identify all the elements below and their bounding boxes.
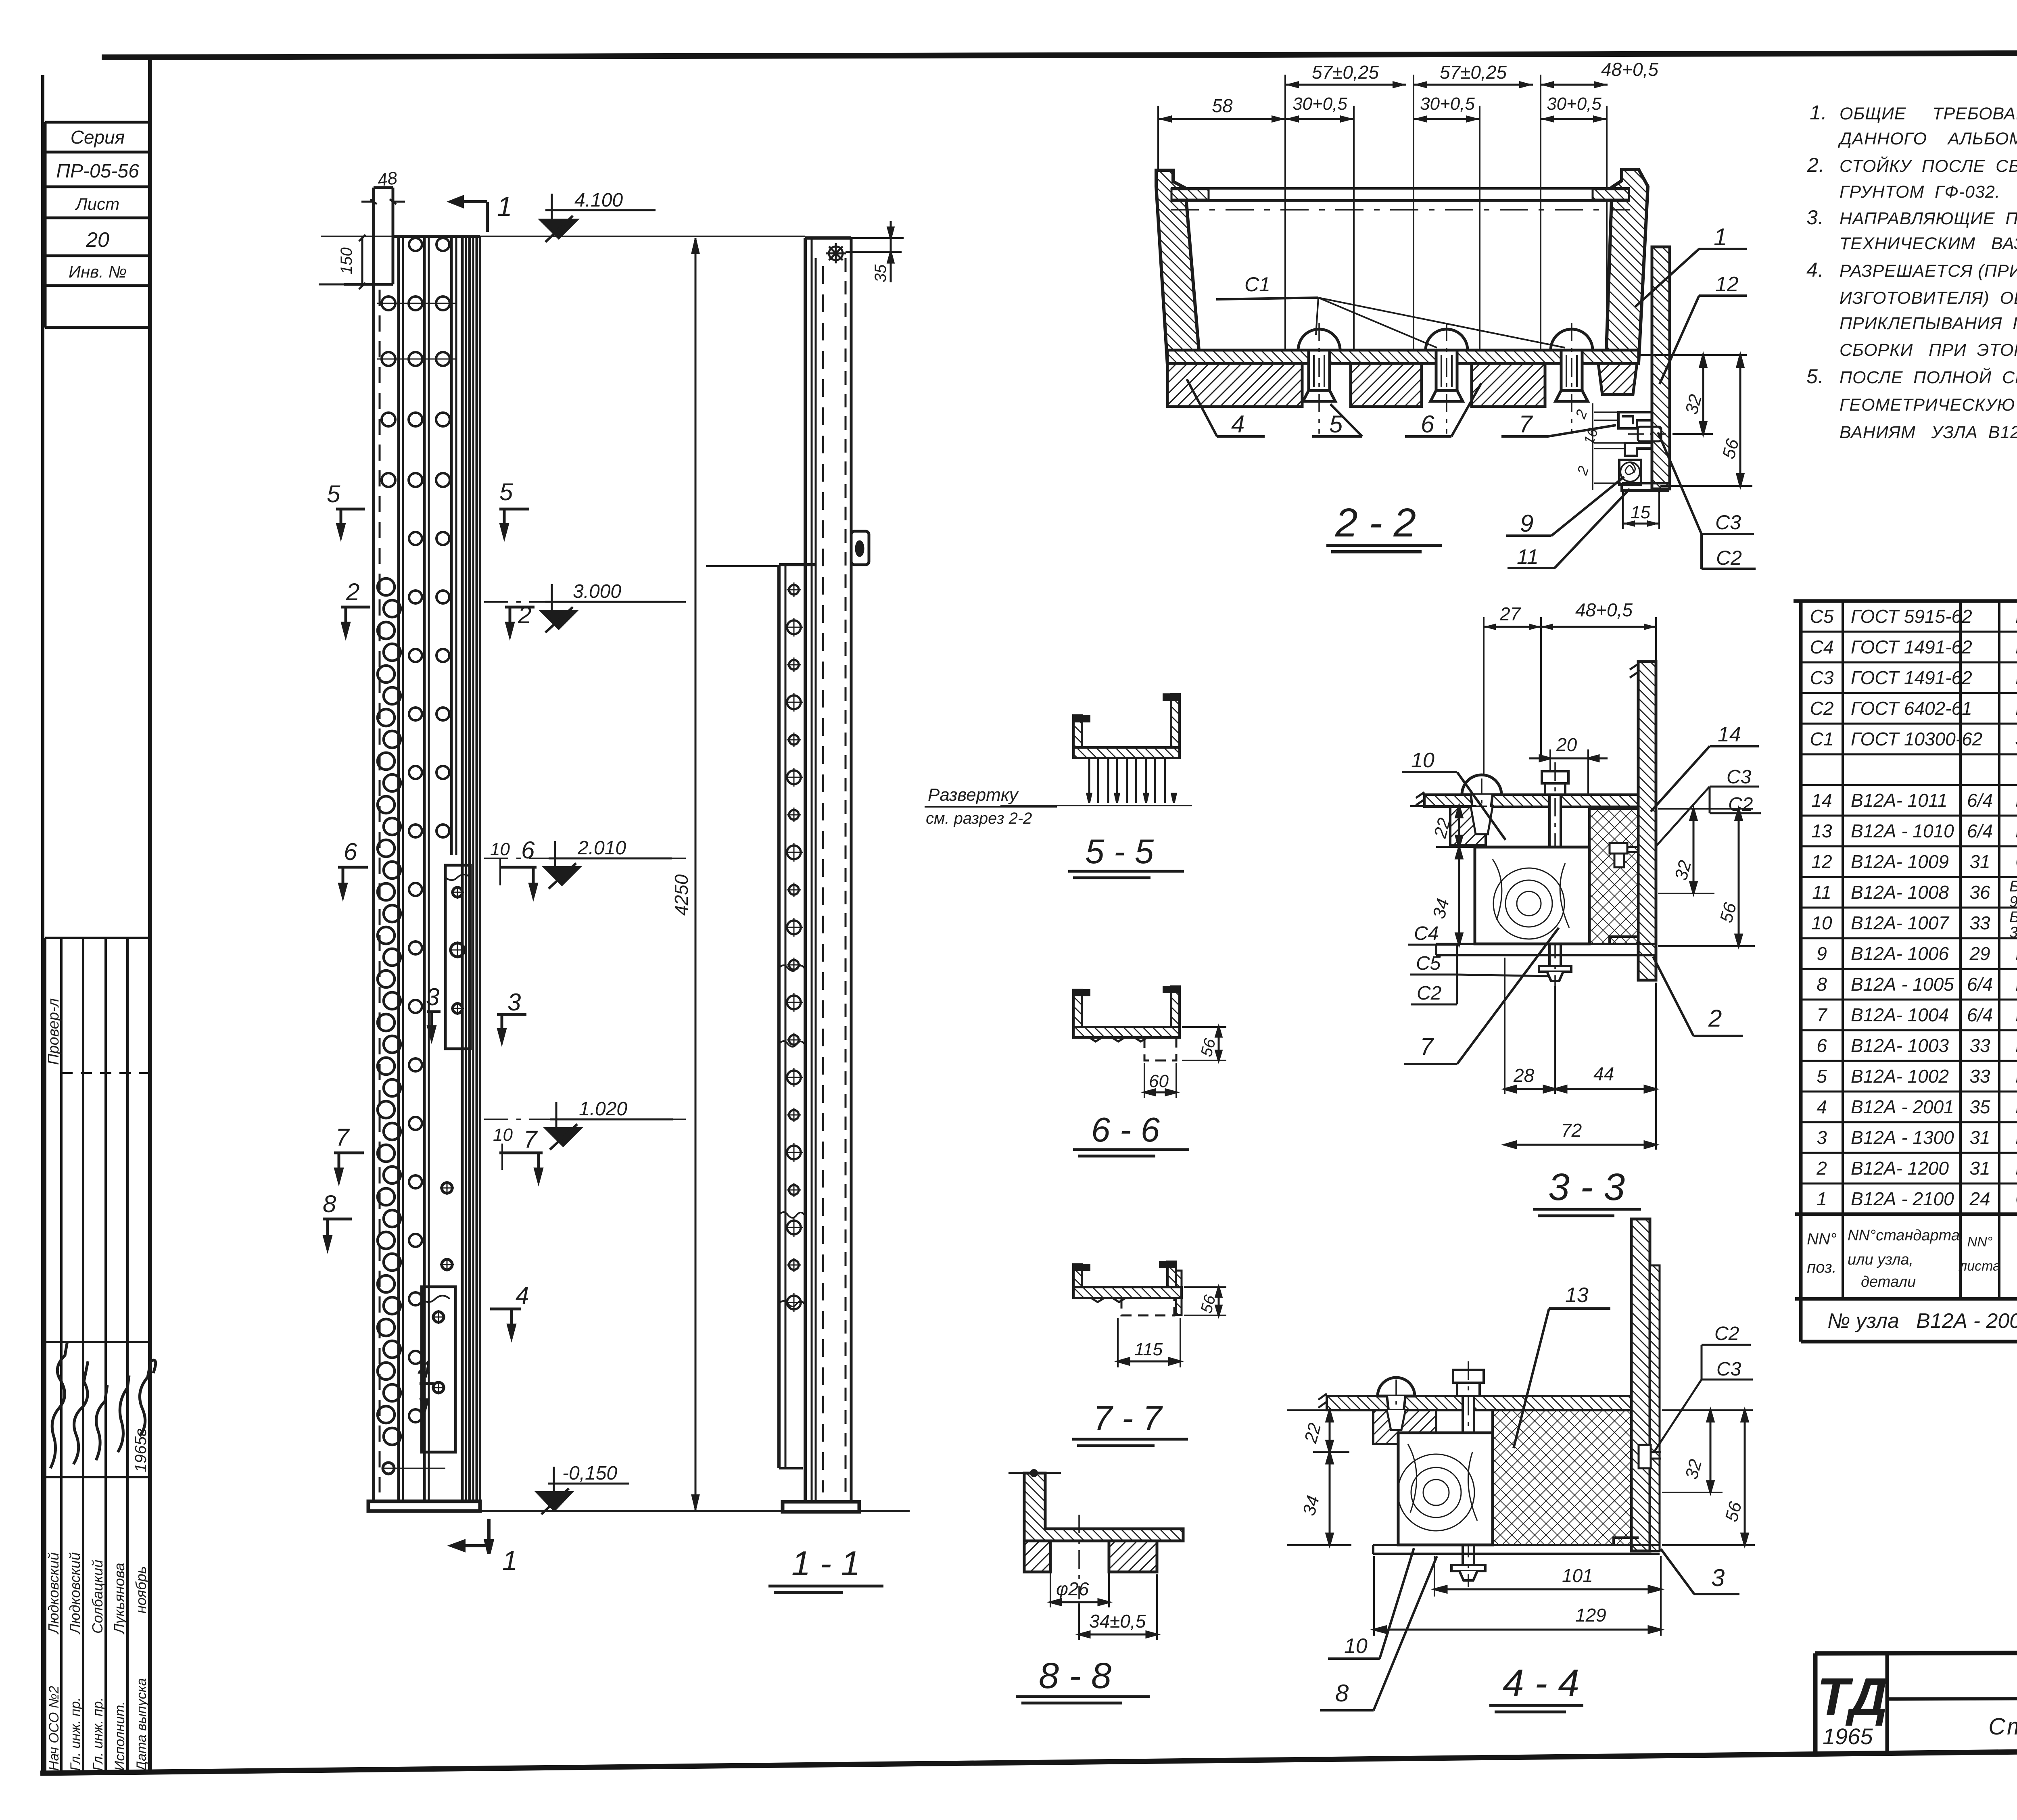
svg-text:2: 2 <box>1816 1158 1827 1179</box>
svg-text:5: 5 <box>327 480 340 507</box>
svg-text:57±0,25: 57±0,25 <box>1312 62 1379 83</box>
svg-text:4: 4 <box>516 1282 529 1309</box>
svg-text:С2: С2 <box>1714 1323 1739 1344</box>
svg-text:10: 10 <box>1811 912 1832 933</box>
svg-text:8: 8 <box>323 1190 336 1217</box>
svg-text:4.100: 4.100 <box>574 190 623 211</box>
svg-text:В12А - 2001: В12А - 2001 <box>1851 1096 1954 1117</box>
svg-text:10: 10 <box>493 1125 513 1145</box>
svg-text:6: 6 <box>344 838 357 865</box>
svg-text:35: 35 <box>1969 1096 1990 1117</box>
svg-text:СБОРКИ ПРИ ЭТОМ НЕСКОЛЬКО: СБОРКИ ПРИ ЭТОМ НЕСКОЛЬКО ИЗМЕНИТСЯ <box>1840 340 2017 360</box>
svg-text:Пластина - 2х12х980: Пластина - 2х12х980 <box>2015 943 2017 964</box>
7-7: pocket dashed <box>1121 1298 1174 1315</box>
svg-text:или узла,: или узла, <box>1848 1251 1913 1268</box>
svg-text:С5: С5 <box>1810 606 1834 627</box>
svg-text:6: 6 <box>521 837 535 864</box>
svg-text:31: 31 <box>1969 851 1990 872</box>
svg-text:13: 13 <box>1565 1284 1589 1307</box>
svg-text:φ26: φ26 <box>1056 1578 1089 1599</box>
7-7: dim 115 <box>1118 1318 1180 1367</box>
right elevation: channel start level line <box>706 565 779 567</box>
ground line <box>368 1510 910 1512</box>
svg-text:58: 58 <box>1212 95 1233 116</box>
svg-text:ИЗГОТОВИТЕЛЯ) ОБРАБОТКУ ПАЗО: ИЗГОТОВИТЕЛЯ) ОБРАБОТКУ ПАЗОВ 30 +0,5 mm… <box>1840 288 2017 308</box>
svg-text:34±0,5: 34±0,5 <box>1089 1611 1146 1632</box>
2-2: top cover strip (part 5) <box>1171 188 1630 200</box>
svg-text:14: 14 <box>1811 790 1832 811</box>
svg-text:НАПРАВЛЯЮЩИЕ ПАЗЫ ДЛЯ ПРЕДОХР: НАПРАВЛЯЮЩИЕ ПАЗЫ ДЛЯ ПРЕДОХРАНЕНИЯ ОТ К… <box>1840 209 2017 228</box>
svg-text:Шайба пружинная 6: Шайба пружинная 6 <box>2015 698 2017 719</box>
svg-text:6/4: 6/4 <box>1967 820 1993 841</box>
svg-text:С4: С4 <box>1810 637 1834 657</box>
svg-text:30+0,5: 30+0,5 <box>1420 94 1475 114</box>
svg-text:Винт М6х70: Винт М6х70 <box>2015 637 2017 657</box>
svg-text:Людковский: Людковский <box>45 1552 62 1634</box>
svg-text:3.: 3. <box>1806 206 1824 229</box>
6-6: dim 60 <box>1144 1063 1176 1098</box>
svg-text:60: 60 <box>1149 1071 1169 1091</box>
3-3: right angle bar <box>1638 662 1656 980</box>
svg-text:Серия: Серия <box>71 127 125 148</box>
level mark -0.150 <box>548 1467 629 1492</box>
svg-text:150: 150 <box>338 247 355 274</box>
section mark 3 left <box>427 1012 441 1039</box>
svg-text:13: 13 <box>1811 820 1832 841</box>
svg-text:С2: С2 <box>1728 794 1753 815</box>
svg-text:2.: 2. <box>1807 154 1825 176</box>
svg-text:NN°: NN° <box>1967 1234 1993 1250</box>
2-2: left flange (channel wall) <box>1156 170 1199 365</box>
svg-text:27: 27 <box>1499 603 1521 624</box>
title block grid <box>1815 1652 2017 1754</box>
svg-text:10: 10 <box>1344 1634 1368 1658</box>
4-4: hex bolt <box>1451 1370 1485 1580</box>
svg-text:12: 12 <box>1811 851 1832 872</box>
svg-text:см. разрез 2-2: см. разрез 2-2 <box>926 810 1032 827</box>
svg-text:1.020: 1.020 <box>579 1098 627 1120</box>
svg-text:листа: листа <box>1959 1259 2000 1274</box>
svg-text:С3: С3 <box>1810 667 1834 688</box>
svg-text:28: 28 <box>1513 1065 1535 1086</box>
2-2: right flange (channel wall) <box>1606 169 1648 363</box>
svg-text:2 - 2: 2 - 2 <box>1335 500 1416 545</box>
sidebar rotated labels <box>45 998 150 1772</box>
svg-text:Заклепка 8х26: Заклепка 8х26 <box>2015 728 2017 749</box>
svg-text:129: 129 <box>1575 1605 1606 1626</box>
svg-text:ГЕОМЕТРИЧЕСКУЮ ФОРМУ И СООТВЕ: ГЕОМЕТРИЧЕСКУЮ ФОРМУ И СООТВЕТСТВОВАТЬ Т… <box>1840 395 2017 415</box>
level line 1.020 <box>484 1119 686 1120</box>
3-3: bolt with nut <box>1539 771 1571 981</box>
svg-text:1965: 1965 <box>1823 1724 1873 1749</box>
svg-text:В12А - 1300: В12А - 1300 <box>1851 1127 1954 1148</box>
svg-text:ТЕХНИЧЕСКИМ ВАЗЕЛИНОМ.: ТЕХНИЧЕСКИМ ВАЗЕЛИНОМ. <box>1840 234 2017 253</box>
left elevation: lower bracket plate <box>382 1181 455 1474</box>
svg-text:44: 44 <box>1593 1063 1614 1084</box>
svg-text:Исполнит.: Исполнит. <box>112 1701 127 1771</box>
svg-text:С3: С3 <box>1715 511 1741 534</box>
4-4: wood block with grain <box>1398 1433 1493 1545</box>
3-3: bottom dims 28/44/72 <box>1505 958 1656 1150</box>
section mark 7 left <box>334 1153 364 1181</box>
left elevation: base plate <box>368 1501 480 1511</box>
svg-text:3: 3 <box>426 983 439 1010</box>
svg-text:5.: 5. <box>1806 365 1824 388</box>
svg-text:Брусок деревянный: Брусок деревянный <box>2009 878 2017 895</box>
svg-text:3: 3 <box>507 989 521 1016</box>
right elevation: dim 35 <box>846 238 904 252</box>
3-3: rivet dome on plate <box>1462 775 1501 795</box>
svg-text:24: 24 <box>1969 1188 1990 1209</box>
6-6: channel section <box>1073 990 1082 1027</box>
svg-text:6 - 6: 6 - 6 <box>1091 1111 1160 1149</box>
svg-text:3 - 3: 3 - 3 <box>1548 1166 1625 1208</box>
3-3: top dims 27 / 48+0,5 <box>1484 617 1656 797</box>
svg-text:4250: 4250 <box>671 874 692 916</box>
svg-text:29: 29 <box>1969 943 1990 964</box>
svg-text:В12А- 1006: В12А- 1006 <box>1851 943 1949 964</box>
svg-text:35: 35 <box>872 264 889 282</box>
svg-text:ПРИКЛЕПЫВАНИЯ ПЛАСТИН К ШВЕЛ: ПРИКЛЕПЫВАНИЯ ПЛАСТИН К ШВЕЛЛЕРУ ПОСЛЕДО… <box>1840 314 2017 333</box>
svg-text:С4: С4 <box>1414 923 1439 944</box>
svg-text:33: 33 <box>1969 1035 1990 1056</box>
section mark 6 left <box>338 867 368 896</box>
svg-text:101: 101 <box>1562 1565 1593 1586</box>
svg-text:5: 5 <box>1817 1066 1827 1087</box>
section mark 3 right <box>497 1014 526 1041</box>
4-4: right dims 32/56 <box>1662 1492 1723 1493</box>
svg-text:Т: Т <box>1817 1667 1853 1726</box>
right elevation 1-1: outline <box>805 238 851 1502</box>
svg-text:В12А- 1007: В12А- 1007 <box>1851 912 1949 933</box>
svg-text:-0,150: -0,150 <box>562 1463 617 1484</box>
svg-text:6: 6 <box>1817 1035 1827 1056</box>
4-4: right angle tall <box>1631 1219 1650 1551</box>
svg-text:2: 2 <box>1708 1005 1722 1032</box>
2-2: dim 15 <box>1623 492 1659 529</box>
svg-text:9: 9 <box>1817 943 1827 964</box>
svg-text:Гл. инж. пр.: Гл. инж. пр. <box>90 1697 106 1771</box>
svg-text:Инв. №: Инв. № <box>69 262 127 281</box>
svg-text:Д: Д <box>1845 1667 1888 1726</box>
svg-text:15: 15 <box>1631 503 1650 522</box>
svg-text:ВАНИЯМ УЗЛА В12А-2/00.: ВАНИЯМ УЗЛА В12А-2/00. <box>1840 423 2017 442</box>
svg-text:ГОСТ 1491-62: ГОСТ 1491-62 <box>1851 637 1972 657</box>
svg-text:10: 10 <box>1411 749 1434 772</box>
2-2: dims 2/16/2 left of latch <box>1593 403 1624 490</box>
left elevation: rivet circles columns <box>377 238 456 487</box>
svg-text:38х54 е=1000: 38х54 е=1000 <box>2009 924 2017 941</box>
svg-text:7: 7 <box>336 1124 350 1151</box>
svg-text:С2: С2 <box>1716 547 1742 569</box>
svg-text:Дата выпуска: Дата выпуска <box>134 1678 149 1772</box>
svg-text:33: 33 <box>1969 912 1990 933</box>
svg-text:4 - 4: 4 - 4 <box>1503 1662 1579 1705</box>
svg-text:В12А - 1005: В12А - 1005 <box>1851 974 1954 995</box>
left elevation: roller chain circles <box>378 578 401 1445</box>
outer trim line left <box>41 75 44 1773</box>
svg-text:В12А- 1200: В12А- 1200 <box>1851 1158 1949 1179</box>
svg-text:48+0,5: 48+0,5 <box>1575 599 1633 620</box>
svg-text:ГОСТ 10300-62: ГОСТ 10300-62 <box>1851 728 1982 749</box>
left elevation: channel vertical lines <box>379 290 381 1492</box>
section mark 4 right <box>490 1309 521 1337</box>
left elevation: guide channel line cluster right <box>461 236 464 1501</box>
svg-text:№ узла: № узла <box>1827 1309 1899 1333</box>
svg-text:8: 8 <box>1335 1680 1349 1707</box>
svg-text:Пластина -12х27х3070: Пластина -12х27х3070 <box>2015 1035 2017 1056</box>
svg-text:РАЗРЕШАЕТСЯ (ПРИ НАЛИЧИИ ТЕХН: РАЗРЕШАЕТСЯ (ПРИ НАЛИЧИИ ТЕХНИЧЕСКИХ ВОЗ… <box>1840 261 2017 281</box>
svg-text:14: 14 <box>1718 723 1741 746</box>
3-3: bottom plate <box>1436 944 1656 955</box>
svg-text:7: 7 <box>1519 411 1533 438</box>
svg-text:11: 11 <box>1812 882 1831 903</box>
svg-text:Пластина -12х27х4085: Пластина -12х27х4085 <box>2015 1066 2017 1087</box>
svg-text:В12А - 2100: В12А - 2100 <box>1851 1188 1954 1209</box>
svg-text:В12А - 2000: В12А - 2000 <box>1916 1309 2017 1333</box>
svg-text:Лукьянова: Лукьянова <box>111 1563 127 1634</box>
svg-text:30+0,5: 30+0,5 <box>1547 94 1601 114</box>
svg-text:1: 1 <box>502 1545 518 1576</box>
signature table grid <box>45 937 150 939</box>
2-2: rivet assemblies C1 <box>1298 323 1340 434</box>
4-4: left dims 22/34 <box>1287 1410 1351 1545</box>
svg-text:NN°стандарта,: NN°стандарта, <box>1848 1227 1964 1244</box>
section mark 5 left <box>336 509 365 536</box>
2-2: web bottom <box>1167 350 1639 363</box>
svg-text:С в сборе: С в сборе <box>2015 1188 2017 1209</box>
6-6: pocket dashed <box>1144 1037 1176 1060</box>
5-5: development strips below <box>1000 758 1192 806</box>
svg-text:Пластина с уголком: Пластина с уголком <box>2015 1127 2017 1148</box>
svg-text:Развертку: Развертку <box>928 785 1019 805</box>
svg-text:10: 10 <box>490 839 510 859</box>
2-2: dim 32 right <box>1638 355 1747 434</box>
svg-text:детали: детали <box>1861 1273 1916 1290</box>
svg-text:31: 31 <box>1969 1158 1990 1179</box>
4-4: rivet dome <box>1378 1378 1415 1396</box>
svg-text:Солбацкий: Солбацкий <box>89 1560 106 1634</box>
svg-text:6/4: 6/4 <box>1967 974 1993 995</box>
svg-text:9: 9 <box>1520 510 1533 537</box>
svg-text:8: 8 <box>1817 974 1827 995</box>
svg-text:В12А- 1002: В12А- 1002 <box>1851 1066 1949 1087</box>
left elevation: rivet rows mid columns <box>409 532 449 1422</box>
4-4: latch screw right <box>1639 1445 1661 1468</box>
level line 3.000 <box>484 601 686 603</box>
svg-text:1.: 1. <box>1810 101 1827 124</box>
4-4: top plate <box>1327 1396 1631 1410</box>
left elevation: upper overlay plate <box>445 865 470 1049</box>
4-4: countersunk pad left <box>1373 1410 1436 1444</box>
svg-text:48+0,5: 48+0,5 <box>1601 59 1658 80</box>
svg-text:С5: С5 <box>1416 953 1441 974</box>
svg-text:ДАННОГО АЛЬБОМА.: ДАННОГО АЛЬБОМА. <box>1838 129 2017 148</box>
svg-text:48: 48 <box>376 168 399 190</box>
svg-text:Людковский: Людковский <box>67 1552 83 1634</box>
section mark 2 left <box>341 607 370 635</box>
svg-text:Пенопласт 52х81х1000: Пенопласт 52х81х1000 <box>2015 820 2017 841</box>
section mark 5 right <box>499 509 529 536</box>
section mark 1 top <box>451 197 487 232</box>
svg-text:4: 4 <box>1231 411 1244 438</box>
svg-text:3: 3 <box>1817 1127 1827 1148</box>
svg-text:СТОЙКУ ПОСЛЕ СБОРКИ, КРОМЕ Н: СТОЙКУ ПОСЛЕ СБОРКИ, КРОМЕ НАПРАВЛЯЮЩИХ … <box>1840 156 2017 176</box>
svg-text:Резина 3х40х1000: Резина 3х40х1000 <box>2015 1004 2017 1025</box>
svg-text:1: 1 <box>1714 223 1727 250</box>
right elevation: stop tab <box>851 531 869 565</box>
right elevation: base plate <box>783 1502 859 1512</box>
svg-text:С3: С3 <box>1716 1359 1741 1380</box>
svg-text:Провер-л: Провер-л <box>45 998 62 1065</box>
section mark 7 right with 10 leader <box>499 1153 543 1181</box>
svg-text:30+0,5: 30+0,5 <box>1292 94 1347 114</box>
svg-text:20: 20 <box>86 228 109 252</box>
overall dim line 4250 <box>695 238 697 1510</box>
svg-text:В12А - 1010: В12А - 1010 <box>1851 820 1954 841</box>
svg-text:Брусок деревянный: Брусок деревянный <box>2009 909 2017 926</box>
svg-text:9х14 е=1000: 9х14 е=1000 <box>2009 893 2017 910</box>
svg-text:Лист: Лист <box>75 194 119 213</box>
2-2: bottom pads <box>1167 363 1302 407</box>
2-2: top dim row 2 <box>1158 118 1607 120</box>
svg-text:В12А- 1003: В12А- 1003 <box>1851 1035 1949 1056</box>
svg-text:С20х8х2 е=960: С20х8х2 е=960 <box>2015 851 2017 872</box>
svg-text:ГОСТ 6402-61: ГОСТ 6402-61 <box>1851 698 1972 719</box>
floor level line at +4.100 <box>321 236 805 237</box>
8-8: dim phi26 <box>1050 1572 1109 1607</box>
svg-text:Гл. инж. пр.: Гл. инж. пр. <box>68 1697 83 1771</box>
sheet border frame <box>102 52 2017 57</box>
svg-text:7: 7 <box>524 1126 538 1153</box>
svg-text:С3: С3 <box>1727 766 1752 788</box>
svg-text:4: 4 <box>1817 1096 1827 1117</box>
svg-text:Нач ОСО №2: Нач ОСО №2 <box>46 1686 62 1771</box>
left elevation: post outline <box>344 188 480 1501</box>
6-6: dim 56 <box>1182 1027 1226 1060</box>
svg-text:1: 1 <box>1817 1188 1827 1209</box>
svg-text:Пластина -12х58х4085: Пластина -12х58х4085 <box>2015 1096 2017 1117</box>
2-2: latch detail parts 7/9/11 <box>1618 412 1669 490</box>
4-4: foam block crosshatch <box>1493 1410 1631 1545</box>
svg-text:ноябрь: ноябрь <box>133 1566 149 1613</box>
2-2: top dim row 1 <box>1285 84 1608 86</box>
svg-text:2: 2 <box>346 578 359 605</box>
right elevation: overlay bolts <box>785 582 803 1312</box>
right elevation: joint break squiggles <box>779 965 805 1307</box>
right elevation: top screw symbol <box>826 243 846 263</box>
sidebar stamp boxes <box>45 121 150 124</box>
section mark 1 bottom <box>452 1519 492 1554</box>
svg-text:6/4: 6/4 <box>1967 790 1993 811</box>
3-3: left dims 22/34 <box>1410 806 1476 847</box>
svg-text:С1: С1 <box>1244 273 1270 296</box>
svg-text:ГОСТ 1491-62: ГОСТ 1491-62 <box>1851 667 1972 688</box>
svg-text:ПОСЛЕ ПОЛНОЙ СБОРКИ СТОЙКА: ПОСЛЕ ПОЛНОЙ СБОРКИ СТОЙКА ДОЛЖНА ИМЕТЬ … <box>1840 367 2017 387</box>
svg-text:7 - 7: 7 - 7 <box>1093 1399 1163 1438</box>
parts table grid <box>1794 601 2017 1342</box>
svg-text:В12А- 1008: В12А- 1008 <box>1851 882 1949 903</box>
3-3: right dims 32/56 <box>1658 809 1755 946</box>
svg-text:поз.: поз. <box>1807 1259 1837 1276</box>
svg-text:Стойка левая В12А - 2000: Стойка левая В12А - 2000 <box>1988 1714 2017 1740</box>
svg-text:33: 33 <box>1969 1066 1990 1087</box>
svg-text:2.010: 2.010 <box>577 837 626 859</box>
4-4: bottom plate <box>1373 1545 1660 1554</box>
svg-text:ГОСТ 5915-62: ГОСТ 5915-62 <box>1851 606 1972 627</box>
svg-text:4: 4 <box>418 1356 431 1383</box>
section mark 6 right with 10 leader <box>500 867 537 896</box>
section mark 8 left <box>323 1219 352 1248</box>
svg-text:6: 6 <box>1421 411 1434 438</box>
svg-text:ОБЩИЕ ТРЕБОВАНИЯ СМОТРИ: ОБЩИЕ ТРЕБОВАНИЯ СМОТРИ В ТЕХНИЧЕСКИХ УС… <box>1840 104 2017 123</box>
svg-text:4.: 4. <box>1806 259 1824 281</box>
2-2: dim extension lines <box>1158 75 1607 350</box>
svg-text:20: 20 <box>1556 734 1577 755</box>
3-3: wood block with grain <box>1475 847 1589 944</box>
svg-text:Резина 3х100х1000: Резина 3х100х1000 <box>2015 974 2017 995</box>
7-7: dim 56 <box>1184 1287 1226 1315</box>
level line 2.010 <box>484 858 686 859</box>
2-2: dim 56 right <box>1660 485 1752 487</box>
svg-text:36: 36 <box>1969 882 1990 903</box>
level mark 4.100 <box>545 194 656 220</box>
svg-text:1: 1 <box>497 191 512 222</box>
3-3: latch screw detail right <box>1610 843 1638 867</box>
7-7: channel section <box>1073 1265 1082 1298</box>
3-3: rubber block crosshatch <box>1589 809 1638 944</box>
svg-text:Пенопласт 24х52х1000: Пенопласт 24х52х1000 <box>2015 790 2017 811</box>
svg-text:5: 5 <box>499 478 513 505</box>
svg-text:С1: С1 <box>1810 728 1834 749</box>
svg-text:12: 12 <box>1715 273 1739 296</box>
svg-text:8 - 8: 8 - 8 <box>1039 1656 1111 1696</box>
section mark 4 left <box>420 1384 434 1412</box>
3-3: dim 20 <box>1550 749 1588 797</box>
8-8: dim 34+-0,5 <box>1079 1574 1157 1640</box>
svg-text:Винт М6х12: Винт М6х12 <box>2015 667 2017 688</box>
svg-text:3.000: 3.000 <box>573 581 621 602</box>
svg-text:ГРУНТОМ ГФ-032.: ГРУНТОМ ГФ-032. <box>1840 182 2000 202</box>
2-2: right angle bar (part 12) <box>1652 247 1670 489</box>
svg-text:2: 2 <box>518 601 531 628</box>
svg-text:ПР-05-56: ПР-05-56 <box>56 161 139 182</box>
4-4: bottom dims 101/129 <box>1374 1556 1661 1636</box>
svg-text:В12А- 1004: В12А- 1004 <box>1851 1004 1949 1025</box>
8-8: angle with pads <box>1024 1473 1183 1541</box>
svg-text:57±0,25: 57±0,25 <box>1440 62 1507 83</box>
svg-text:5 - 5: 5 - 5 <box>1085 833 1154 871</box>
svg-text:В12А- 1011: В12А- 1011 <box>1851 790 1948 811</box>
svg-text:7: 7 <box>1817 1004 1827 1025</box>
signatures squiggles <box>50 1341 156 1468</box>
svg-text:Пластина с уголком: Пластина с уголком <box>2015 1158 2017 1179</box>
right elevation: lower overlay channel <box>779 565 816 1468</box>
dim 150 left <box>319 235 365 289</box>
svg-text:6/4: 6/4 <box>1967 1004 1993 1025</box>
svg-text:3: 3 <box>1711 1564 1725 1591</box>
svg-text:С2: С2 <box>1417 983 1441 1004</box>
svg-text:Гайка М6: Гайка М6 <box>2015 606 2017 627</box>
svg-text:7: 7 <box>1420 1033 1434 1060</box>
svg-text:В12А- 1009: В12А- 1009 <box>1851 851 1949 872</box>
3-3: top plate <box>1424 795 1638 807</box>
svg-text:NN°: NN° <box>1807 1230 1837 1248</box>
svg-text:31: 31 <box>1969 1127 1990 1148</box>
svg-text:1 - 1: 1 - 1 <box>791 1544 860 1583</box>
svg-text:С2: С2 <box>1810 698 1834 719</box>
svg-text:11: 11 <box>1517 545 1539 569</box>
